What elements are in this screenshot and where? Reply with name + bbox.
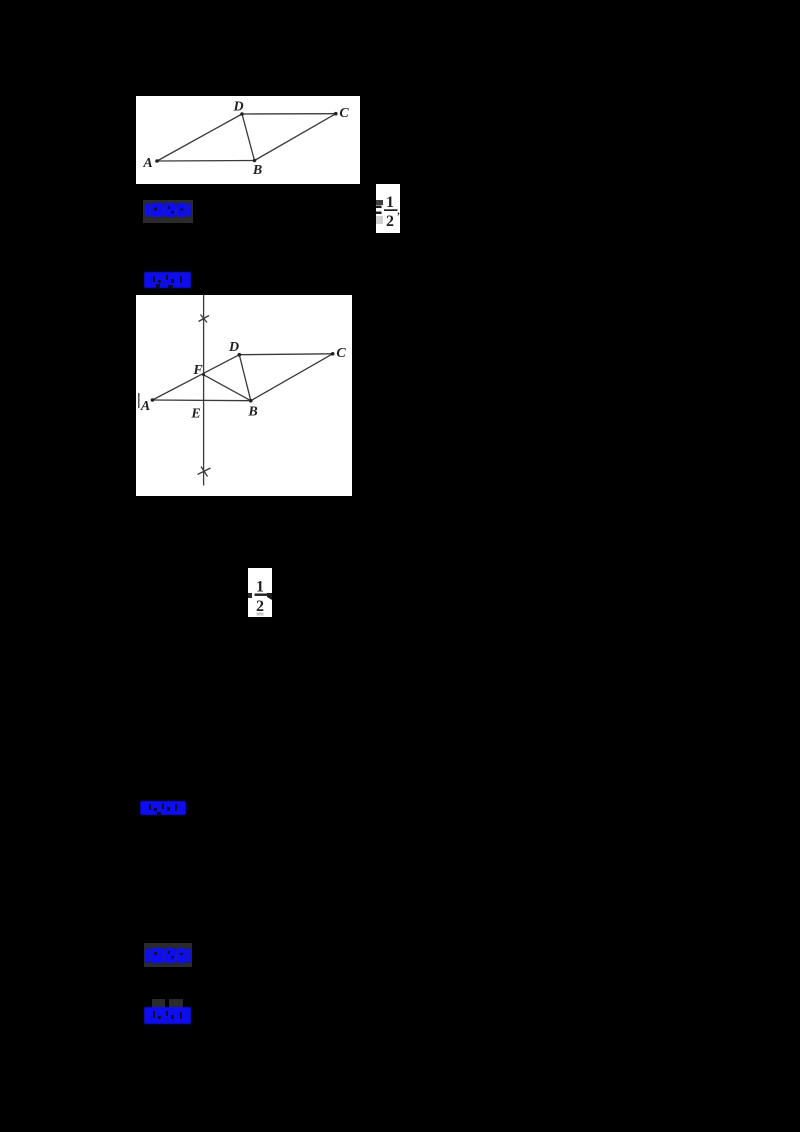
wire BC [255, 114, 336, 161]
svg-text:A: A [142, 156, 152, 171]
svg-text:C: C [336, 346, 346, 361]
svg-text:D: D [232, 100, 243, 115]
label 2: 【解答】 solid blue [144, 271, 192, 289]
wire: perpendicular bisector vertical line [203, 295, 205, 486]
wire FB [204, 375, 251, 401]
wire AD [157, 114, 242, 161]
label 1: 【分析】 blue on gray [143, 200, 193, 223]
wire AB [157, 160, 255, 163]
label 3: 【点评】 solid blue [140, 800, 187, 816]
wire DC [242, 113, 336, 115]
wire DB [239, 355, 251, 401]
left edge tick near A [138, 393, 140, 408]
wire BC [251, 354, 333, 401]
wire DC [239, 353, 332, 356]
svg-text:B: B [252, 163, 262, 178]
svg-text:A: A [140, 399, 150, 414]
tick cross bottom [198, 468, 211, 475]
svg-text:,: , [397, 206, 400, 217]
label 4: 【分析】 blue on gray [144, 943, 192, 967]
wire AD through F [152, 355, 239, 400]
label 5: 【解答】 blue with gray patches above [152, 999, 165, 1008]
svg-text:1: 1 [256, 578, 264, 595]
fraction crop 2: = 1/2 [248, 568, 273, 617]
svg-text:E: E [190, 407, 200, 422]
wire DB [242, 114, 255, 161]
svg-text:D: D [228, 340, 239, 355]
svg-text:2: 2 [256, 598, 264, 615]
svg-text:C: C [339, 106, 349, 121]
svg-text:2: 2 [386, 213, 394, 230]
tick cross top [199, 316, 210, 322]
svg-text:F: F [192, 363, 203, 378]
figure 1: parallelogram ABCD with diagonal BD [136, 96, 360, 184]
svg-text:1: 1 [386, 194, 394, 211]
fraction crop 1: = 1/2 , [376, 184, 400, 233]
wire AB through E [152, 399, 250, 402]
figure 2: parallelogram with perpendicular bisector EF [136, 295, 352, 496]
svg-text:B: B [247, 405, 257, 420]
